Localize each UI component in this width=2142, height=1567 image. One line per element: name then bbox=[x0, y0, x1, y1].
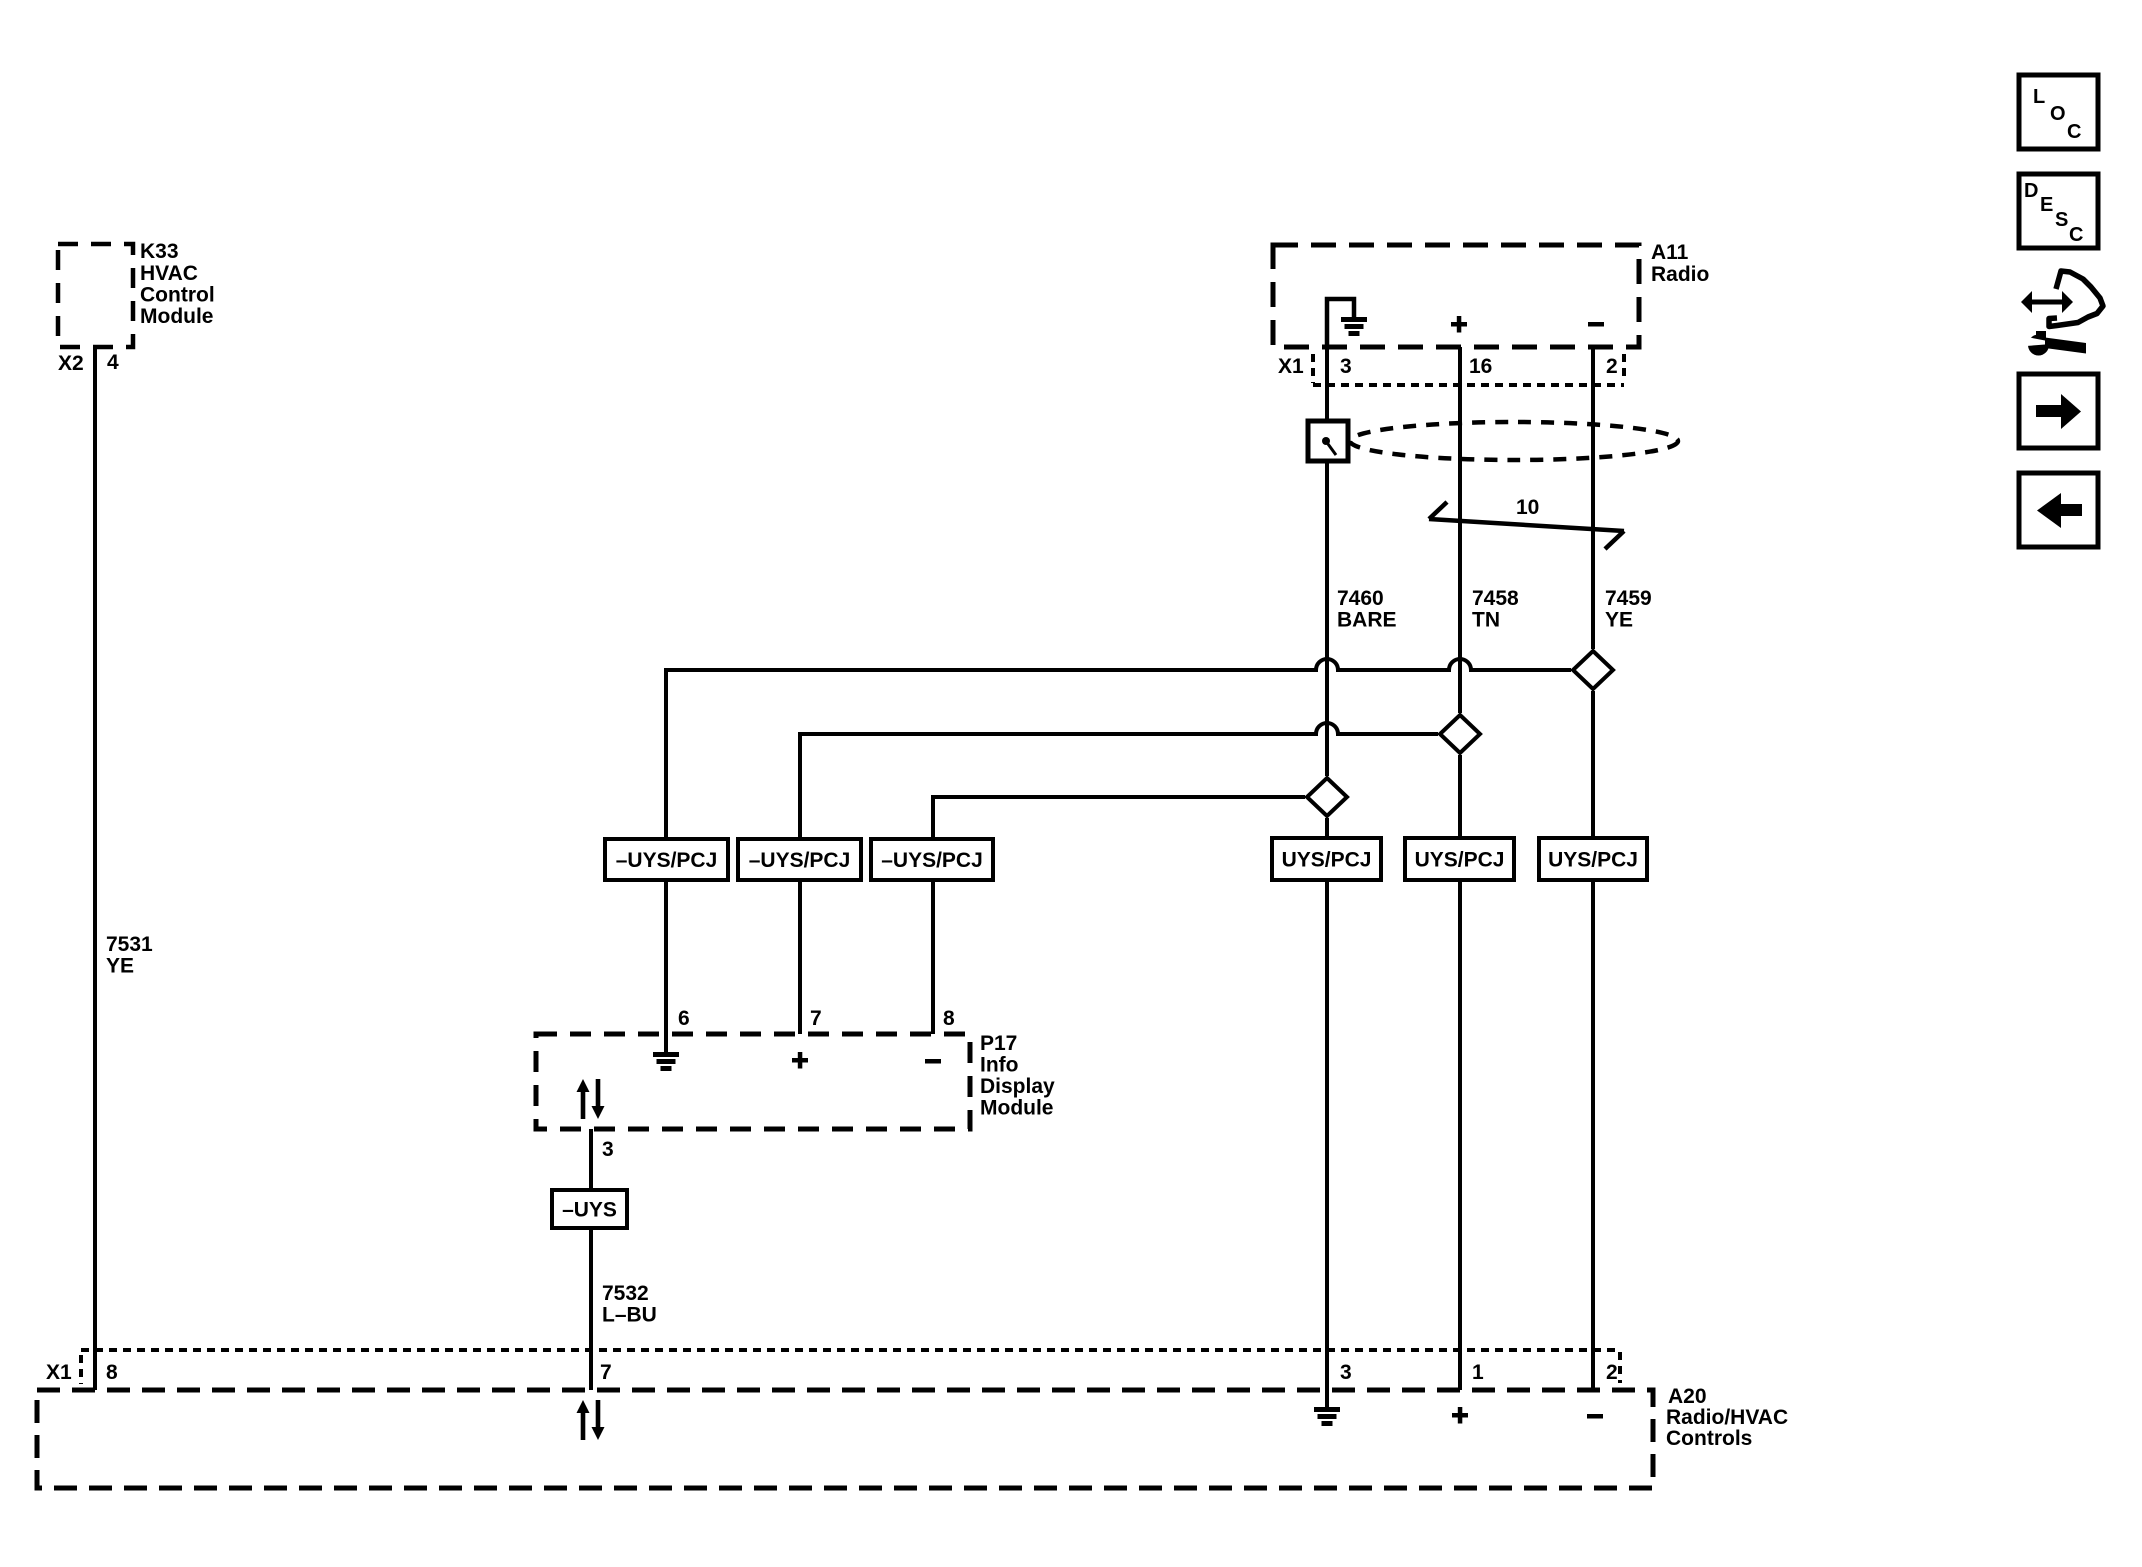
svg-text:L: L bbox=[2033, 86, 2045, 108]
K33 labels bbox=[140, 240, 215, 328]
svg-text:Radio: Radio bbox=[1651, 263, 1709, 286]
wire label 7458 TN bbox=[1472, 587, 1519, 632]
harness label box UYS/PCJ on BARE bbox=[1272, 838, 1381, 880]
harness label box -UYS/PCJ branch 1 bbox=[605, 839, 728, 880]
svg-text:7532: 7532 bbox=[602, 1282, 649, 1305]
P17 pin labels 6 7 8 bbox=[678, 1007, 955, 1030]
wire label 7531 YE bbox=[106, 933, 153, 978]
A11 connector pin labels X1 3 16 2 bbox=[1278, 355, 1618, 378]
svg-text:P17: P17 bbox=[980, 1032, 1017, 1055]
harness label box -UYS/PCJ branch 3 bbox=[871, 839, 993, 880]
svg-text:3: 3 bbox=[602, 1138, 614, 1161]
splice diamond S1 on YE wire bbox=[1573, 651, 1613, 689]
svg-text:7460: 7460 bbox=[1337, 587, 1384, 610]
svg-text:1: 1 bbox=[1472, 1361, 1484, 1384]
harness/connector-view icon (double arrow, outline, wrench) bbox=[2021, 271, 2103, 356]
svg-text:Radio/HVAC: Radio/HVAC bbox=[1666, 1406, 1788, 1429]
minus terminal (inside P17 pin 8) bbox=[925, 1059, 941, 1064]
A20 internal ground stub bbox=[1325, 1390, 1329, 1407]
serial-data up/down arrows (inside A20 below pin 7) bbox=[577, 1400, 605, 1440]
A11 connector X1 dotted strip bbox=[1313, 354, 1624, 385]
svg-text:Control: Control bbox=[140, 284, 215, 307]
A20 connector pin labels X1 8 7 3 1 2 bbox=[46, 1361, 1618, 1384]
minus terminal (inside A20 pin 2) bbox=[1587, 1414, 1603, 1419]
A11 internal ground loop wire bbox=[1327, 299, 1354, 347]
svg-text:C: C bbox=[2069, 224, 2083, 246]
splice diamond S3 on BARE wire bbox=[1307, 778, 1347, 816]
svg-text:Controls: Controls bbox=[1666, 1427, 1752, 1450]
A11 labels bbox=[1651, 241, 1709, 286]
svg-text:2: 2 bbox=[1606, 355, 1618, 378]
svg-text:6: 6 bbox=[678, 1007, 690, 1030]
bus wire row 1: splice on YE to -UYS/PCJ branch 1 (hops over BARE and TN) bbox=[666, 659, 1571, 841]
svg-text:S: S bbox=[2055, 209, 2068, 231]
svg-text:X2: X2 bbox=[58, 352, 84, 375]
wire branch 3 below box to P17 pin 8 bbox=[931, 878, 935, 1034]
wire branch 1 below box to P17 pin 6 bbox=[664, 878, 668, 1034]
svg-text:7: 7 bbox=[810, 1007, 822, 1030]
wire 7531 YE from K33 X2-4 to A20 X1-8 bbox=[93, 347, 97, 1390]
svg-text:–UYS: –UYS bbox=[562, 1199, 617, 1222]
svg-text:HVAC: HVAC bbox=[140, 262, 198, 285]
back nav button (left arrow) bbox=[2019, 473, 2098, 547]
svg-text:A20: A20 bbox=[1668, 1385, 1707, 1408]
Info Display Module P17 box bbox=[536, 1034, 970, 1129]
LOC nav button bbox=[2019, 75, 2098, 149]
forward nav button (right arrow) bbox=[2019, 374, 2098, 448]
svg-text:8: 8 bbox=[943, 1007, 955, 1030]
svg-text:7458: 7458 bbox=[1472, 587, 1519, 610]
svg-text:Info: Info bbox=[980, 1054, 1018, 1077]
wire 7460 BARE (drain) A11 pin3 to A20 pin3 bbox=[1325, 347, 1329, 776]
svg-text:X1: X1 bbox=[46, 1361, 72, 1384]
svg-text:–UYS/PCJ: –UYS/PCJ bbox=[749, 849, 851, 872]
svg-text:TN: TN bbox=[1472, 609, 1500, 632]
K33 connector X2 pin 4 labels bbox=[58, 351, 119, 375]
serial-data up/down arrows (inside P17) bbox=[577, 1079, 605, 1119]
svg-text:Module: Module bbox=[980, 1097, 1054, 1120]
wire label 7532 L-BU bbox=[602, 1282, 657, 1327]
plus terminal (inside A20 pin 1) bbox=[1452, 1407, 1468, 1424]
HVAC Control Module K33 box bbox=[58, 244, 133, 347]
svg-text:–UYS/PCJ: –UYS/PCJ bbox=[616, 849, 718, 872]
harness label box -UYS on 7532 bbox=[552, 1190, 627, 1228]
svg-text:D: D bbox=[2024, 180, 2038, 202]
DESC nav button bbox=[2019, 174, 2098, 248]
svg-text:3: 3 bbox=[1340, 355, 1352, 378]
wire 7532 L-BU P17 pin3 to A20 pin7 bbox=[589, 1129, 593, 1390]
svg-text:L–BU: L–BU bbox=[602, 1304, 657, 1327]
plus terminal (inside A11 pin 16) bbox=[1451, 316, 1467, 333]
svg-text:–UYS/PCJ: –UYS/PCJ bbox=[881, 849, 983, 872]
minus terminal (inside A11 pin 2) bbox=[1588, 322, 1604, 327]
svg-text:K33: K33 bbox=[140, 240, 179, 263]
svg-text:7459: 7459 bbox=[1605, 587, 1652, 610]
wire label 7459 YE bbox=[1605, 587, 1652, 632]
shield dashed ellipse around twisted pair bbox=[1350, 422, 1678, 460]
svg-text:X1: X1 bbox=[1278, 355, 1304, 378]
ground symbol (inside P17 pin 6) bbox=[653, 1052, 679, 1071]
wire 7458 TN A11 pin16 to A20 pin1 bbox=[1458, 347, 1462, 713]
ground symbol (inside A20 pin 3) bbox=[1314, 1407, 1340, 1426]
wire branch 2 below box to P17 pin 7 bbox=[798, 878, 802, 1034]
svg-text:2: 2 bbox=[1606, 1361, 1618, 1384]
svg-text:10: 10 bbox=[1516, 496, 1539, 519]
svg-text:YE: YE bbox=[1605, 609, 1633, 632]
splice diamond S2 on TN wire bbox=[1440, 715, 1480, 753]
plus terminal (inside P17 pin 7) bbox=[792, 1052, 808, 1069]
harness label box -UYS/PCJ branch 2 bbox=[738, 839, 861, 880]
svg-text:A11: A11 bbox=[1651, 241, 1689, 264]
svg-text:UYS/PCJ: UYS/PCJ bbox=[1548, 849, 1638, 872]
P17 internal ground stub bbox=[664, 1034, 668, 1052]
svg-text:4: 4 bbox=[107, 351, 119, 374]
svg-text:UYS/PCJ: UYS/PCJ bbox=[1415, 849, 1505, 872]
A20 labels bbox=[1666, 1385, 1788, 1450]
harness label box UYS/PCJ on TN bbox=[1405, 838, 1514, 880]
svg-text:7531: 7531 bbox=[106, 933, 153, 956]
svg-text:8: 8 bbox=[106, 1361, 118, 1384]
Radio/HVAC Controls A20 box bbox=[37, 1390, 1653, 1488]
svg-text:E: E bbox=[2040, 194, 2053, 216]
wire label 7460 BARE bbox=[1337, 587, 1397, 632]
svg-text:UYS/PCJ: UYS/PCJ bbox=[1282, 849, 1372, 872]
svg-text:O: O bbox=[2050, 103, 2066, 125]
ground symbol (inside A11) bbox=[1341, 317, 1367, 336]
svg-text:16: 16 bbox=[1469, 355, 1492, 378]
shield termination box on BARE wire bbox=[1308, 421, 1348, 461]
svg-text:BARE: BARE bbox=[1337, 609, 1397, 632]
twisted-pair callout arrow 10 bbox=[1429, 502, 1624, 549]
bus wire row 2: splice on TN to -UYS/PCJ branch 2 (hop over BARE) bbox=[800, 723, 1438, 841]
svg-text:Module: Module bbox=[140, 305, 214, 328]
svg-text:7: 7 bbox=[600, 1361, 612, 1384]
svg-text:YE: YE bbox=[106, 955, 134, 978]
bus wire row 3: splice on BARE to -UYS/PCJ branch 3 bbox=[933, 797, 1305, 841]
wire 7459 YE A11 pin2 to A20 pin2 bbox=[1591, 347, 1595, 649]
Radio A11 box bbox=[1273, 245, 1639, 347]
harness label box UYS/PCJ on YE bbox=[1539, 838, 1647, 880]
svg-text:C: C bbox=[2067, 121, 2081, 143]
svg-text:3: 3 bbox=[1340, 1361, 1352, 1384]
P17 labels bbox=[980, 1032, 1055, 1120]
svg-text:Display: Display bbox=[980, 1075, 1055, 1098]
A20 connector X1 dotted strip bbox=[81, 1350, 1620, 1384]
